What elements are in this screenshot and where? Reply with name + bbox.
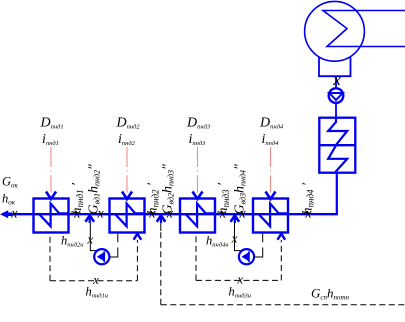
turbine sigma blades xyxy=(323,11,405,47)
svg-text:Dпнд2: Dпнд2 xyxy=(116,116,141,131)
svg-text:Dпнд4: Dпнд4 xyxy=(259,116,284,131)
svg-text:Gвд2hпнд3″: Gвд2hпнд3″ xyxy=(161,164,176,215)
drain injection arrow 3 xyxy=(234,216,236,223)
wire hood to condensate pump xyxy=(335,76,337,89)
heater PND3 xyxy=(180,199,215,233)
svg-text:x: x xyxy=(10,207,18,222)
drain pump 1 discharge wire xyxy=(90,223,96,251)
drain injection arrow 2 xyxy=(160,216,162,223)
heater PND2 xyxy=(110,199,145,233)
svg-text:Gвд3hпнд4″: Gвд3hпнд4″ xyxy=(233,164,248,215)
svg-text:hок: hок xyxy=(2,191,16,206)
network heater coil bottom xyxy=(328,145,347,172)
svg-text:Dпнд1: Dпнд1 xyxy=(40,116,64,131)
svg-text:iпнд2: iпнд2 xyxy=(118,132,136,147)
wire network heater down to main line xyxy=(336,173,338,215)
steam extraction 4 xyxy=(270,147,272,193)
drain pump 1 suction wire xyxy=(110,256,118,258)
svg-text:x: x xyxy=(236,272,243,287)
drain pump 2 discharge wire xyxy=(235,223,242,251)
svg-text:x: x xyxy=(92,272,99,287)
network heater drain dashed return xyxy=(161,304,405,306)
svg-text:iпнд4: iпнд4 xyxy=(262,132,280,147)
svg-text:hпнд2 ′: hпнд2 ′ xyxy=(145,182,160,215)
outlet arrow left xyxy=(0,210,8,218)
heater PND1 xyxy=(34,199,69,233)
svg-text:x: x xyxy=(332,70,341,89)
wire pump to network heater xyxy=(335,103,337,118)
heater PND4 xyxy=(253,199,288,233)
turbine U-TURB circle xyxy=(305,1,365,61)
network heater coil top xyxy=(328,118,347,145)
condensate pump KN xyxy=(329,88,344,103)
svg-text:Dпнд3: Dпнд3 xyxy=(186,116,211,131)
drain pump 2 suction wire xyxy=(254,256,262,258)
svg-text:Gспhпотн: Gспhпотн xyxy=(311,286,350,302)
svg-text:x: x xyxy=(231,230,238,245)
main condensate pipe xyxy=(10,213,338,215)
drain loop 2 xyxy=(195,234,197,281)
drain pump DN1 xyxy=(94,249,109,264)
svg-text:iпнд1: iпнд1 xyxy=(42,132,59,147)
drain loop 1 xyxy=(49,234,51,281)
svg-text:Gок: Gок xyxy=(2,175,19,190)
steam extraction 3 xyxy=(197,147,199,193)
svg-text:hпнд3 ′: hпнд3 ′ xyxy=(216,182,231,215)
svg-text:x: x xyxy=(86,231,93,246)
svg-text:Gвд1hпнд2″: Gвд1hпнд2″ xyxy=(87,164,102,215)
svg-text:hпнд4 ′: hпнд4 ′ xyxy=(301,182,316,215)
svg-text:hпнд4н: hпнд4н xyxy=(206,233,229,248)
network heater box xyxy=(319,118,355,173)
steam extraction 1 xyxy=(50,147,52,193)
drain pump DN2 xyxy=(239,249,254,264)
drain injection arrow 1 xyxy=(89,216,91,223)
svg-text:iпнд3: iпнд3 xyxy=(189,132,207,147)
turbine exhaust hood xyxy=(319,58,351,77)
svg-text:hпнд1 ′: hпнд1 ′ xyxy=(70,182,85,215)
steam extraction 2 xyxy=(126,147,128,193)
svg-text:hпнд2н: hпнд2н xyxy=(61,233,84,248)
